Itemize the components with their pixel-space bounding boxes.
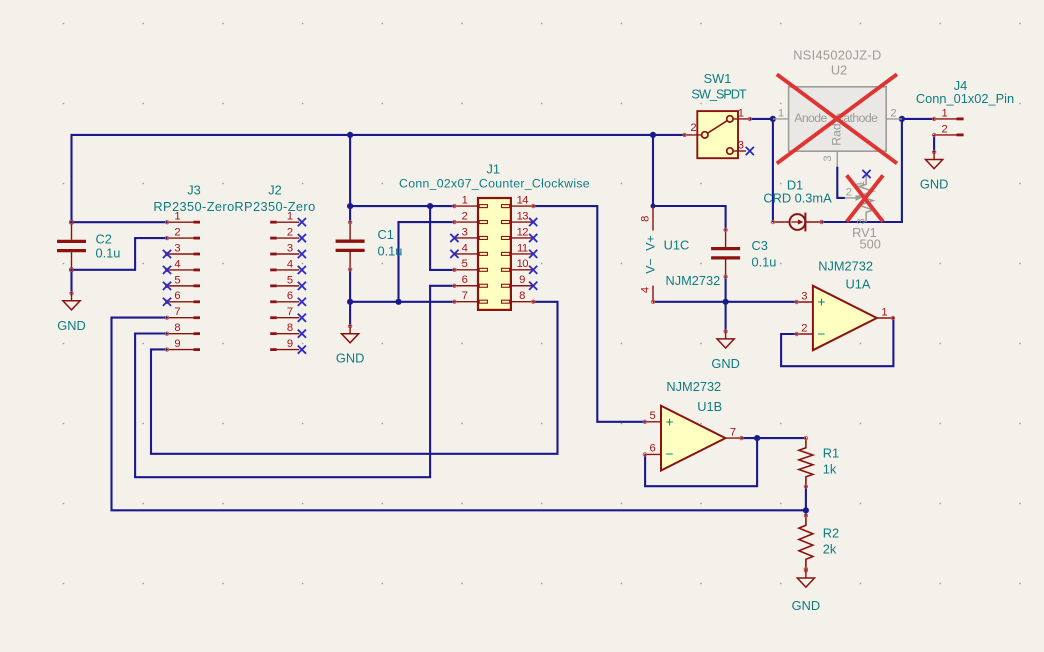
svg-text:3: 3 xyxy=(738,140,744,152)
svg-text:1: 1 xyxy=(287,211,293,223)
svg-text:6: 6 xyxy=(287,290,293,302)
op-amp U1B NJM2732 xyxy=(643,379,743,470)
junction xyxy=(395,299,401,305)
svg-text:3: 3 xyxy=(801,290,807,302)
wire SW1 pin 1 to U2 pin 1 xyxy=(750,118,773,120)
no-connect on J3 pin 6 xyxy=(163,298,171,306)
wire top rail branch down to U1C V+ and C3 xyxy=(653,135,726,230)
svg-text:RP2350-Zero: RP2350-Zero xyxy=(234,199,315,214)
wire U1C V- rail to U1A pin 3 xyxy=(653,301,797,303)
J2 pin 2 xyxy=(270,237,277,240)
svg-text:5: 5 xyxy=(174,274,180,286)
svg-text:9: 9 xyxy=(174,338,180,350)
wire J3 pin 9 loop to J1 pin 8 xyxy=(151,302,558,454)
junction xyxy=(347,299,353,305)
J1 pin 10 xyxy=(511,269,533,271)
regulator U2 NSI45020JZ-D (DNP, crossed out) xyxy=(773,48,902,167)
svg-text:1: 1 xyxy=(738,107,744,119)
J1 pin 11 xyxy=(511,253,533,255)
J1 pin 9 xyxy=(511,285,533,287)
wire VCC top rail from C2 up and across to SW1 pin 2 xyxy=(72,135,685,222)
wire C1 node to J1 pin 1 xyxy=(350,205,454,207)
svg-text:U1A: U1A xyxy=(846,277,871,292)
no-connect on J1 pin 13 xyxy=(529,218,537,226)
J1 pin 12 xyxy=(511,237,533,239)
wire J1 pin 2 to GND rail xyxy=(399,222,455,302)
J3 pin 4 xyxy=(167,269,194,271)
svg-text:1: 1 xyxy=(778,107,784,119)
J1 pin 4 xyxy=(454,253,478,255)
junction xyxy=(651,204,656,209)
potentiometer RV1 500 (DNP, crossed out) xyxy=(845,170,883,252)
svg-text:1: 1 xyxy=(941,107,947,119)
op-amp U1C power unit NJM2732 xyxy=(639,206,720,303)
J1 pin 5 xyxy=(454,269,478,271)
J2 pin 7 xyxy=(270,316,277,319)
wire U2 pin 2 to J4 pin 1 xyxy=(902,118,934,120)
svg-text:2: 2 xyxy=(462,210,468,222)
svg-text:GND: GND xyxy=(711,356,739,371)
svg-text:NJM2732: NJM2732 xyxy=(666,273,721,288)
no-connect on J1 pin 12 xyxy=(529,234,537,242)
svg-text:13: 13 xyxy=(517,210,529,222)
svg-text:6: 6 xyxy=(462,274,468,286)
svg-text:7: 7 xyxy=(287,306,293,318)
wire top rail down to C1 top node xyxy=(349,135,351,206)
svg-text:3: 3 xyxy=(856,218,868,224)
capacitor C1 xyxy=(336,221,403,271)
svg-text:12: 12 xyxy=(517,226,529,238)
J1 pin 14 xyxy=(511,205,533,207)
svg-text:0.1u: 0.1u xyxy=(378,244,403,259)
no-connect on J2 pin 6 xyxy=(298,298,306,306)
svg-text:4: 4 xyxy=(639,287,651,293)
svg-text:1: 1 xyxy=(174,211,180,223)
ground xyxy=(57,292,85,333)
no-connect on J2 pin 2 xyxy=(298,234,306,242)
junction xyxy=(803,507,809,513)
svg-text:1: 1 xyxy=(881,306,887,318)
svg-text:SW1: SW1 xyxy=(704,71,732,86)
J2 pin 8 xyxy=(270,332,277,335)
svg-text:R2: R2 xyxy=(823,525,839,540)
no-connect on J2 pin 5 xyxy=(298,282,306,290)
svg-text:4: 4 xyxy=(287,258,293,270)
svg-text:NSI45020JZ-D: NSI45020JZ-D xyxy=(793,48,881,63)
svg-text:2k: 2k xyxy=(823,541,837,556)
switch SW1 SW_SPDT xyxy=(683,71,754,158)
J3 pin 1 xyxy=(167,221,194,223)
svg-text:8: 8 xyxy=(287,322,293,334)
wire C1 bottom to GND node xyxy=(349,269,351,326)
svg-text:Conn_02x07_Counter_Clockwise: Conn_02x07_Counter_Clockwise xyxy=(399,177,590,191)
wire C1 top pin stub xyxy=(349,206,351,222)
svg-text:+: + xyxy=(666,414,674,429)
svg-text:−: − xyxy=(818,327,826,342)
svg-text:4: 4 xyxy=(174,258,180,270)
junction xyxy=(723,299,729,305)
svg-text:10: 10 xyxy=(517,258,529,270)
svg-text:GND: GND xyxy=(920,177,948,192)
svg-text:8: 8 xyxy=(639,216,651,222)
svg-text:NJM2732: NJM2732 xyxy=(818,258,873,273)
svg-text:3: 3 xyxy=(174,242,180,254)
svg-text:J1: J1 xyxy=(487,162,501,177)
no-connect on J1 pin 11 xyxy=(529,250,537,258)
svg-text:RP2350-Zero: RP2350-Zero xyxy=(153,199,234,214)
capacitor C3 xyxy=(711,228,776,278)
no-connect on J2 pin 9 xyxy=(298,345,306,353)
J2 pin 9 xyxy=(270,348,277,351)
svg-text:+: + xyxy=(818,295,826,310)
junction xyxy=(347,132,353,138)
svg-text:7: 7 xyxy=(462,290,468,302)
svg-text:14: 14 xyxy=(517,195,529,207)
connector J3 RP2350-Zero xyxy=(153,183,234,352)
J1 pin 13 xyxy=(511,221,533,223)
ground xyxy=(336,325,364,366)
wire C2 bottom to GND xyxy=(70,270,72,294)
ground xyxy=(920,150,948,191)
J1 pin 6 xyxy=(454,285,478,287)
no-connect on J2 pin 8 xyxy=(298,330,306,338)
wire J3 pin 7 loop to R1/R2 divider node xyxy=(112,318,806,511)
connector J1 Conn_02x07_Counter_Clockwise xyxy=(399,162,590,310)
svg-text:3: 3 xyxy=(462,226,468,238)
svg-text:V+: V+ xyxy=(644,235,658,250)
no-connect on J3 pin 5 xyxy=(163,282,171,290)
junction xyxy=(770,116,776,122)
ground xyxy=(792,569,820,613)
junction xyxy=(650,132,656,138)
no-connect on RV1 pin 1 xyxy=(862,170,870,178)
svg-text:Anode: Anode xyxy=(794,111,827,125)
no-connect on J3 pin 4 xyxy=(163,266,171,274)
svg-text:GND: GND xyxy=(792,598,820,613)
connector J2 RP2350-Zero xyxy=(234,183,315,354)
svg-text:5: 5 xyxy=(649,410,655,422)
svg-text:U2: U2 xyxy=(831,63,847,78)
svg-text:2: 2 xyxy=(801,322,807,334)
no-connect on J2 pin 4 xyxy=(298,266,306,274)
svg-text:1: 1 xyxy=(462,195,468,207)
no-connect on J3 pin 3 xyxy=(163,250,171,258)
svg-text:500: 500 xyxy=(860,237,881,252)
svg-text:2: 2 xyxy=(287,226,293,238)
no-connect on J2 pin 7 xyxy=(298,314,306,322)
J2 pin 1 xyxy=(270,221,277,224)
wire C2 top to J3 pin 1 xyxy=(72,221,168,223)
capacitor C2 xyxy=(57,221,120,272)
junction xyxy=(754,435,760,441)
svg-text:2: 2 xyxy=(174,226,180,238)
J2 pin 5 xyxy=(270,284,277,287)
svg-text:SW_SPDT: SW_SPDT xyxy=(691,87,746,102)
J3 pin 7 xyxy=(167,317,194,319)
svg-text:7: 7 xyxy=(174,306,180,318)
svg-text:C3: C3 xyxy=(752,238,768,253)
J3 pin 9 xyxy=(167,349,194,351)
svg-text:6: 6 xyxy=(174,290,180,302)
J3 pin 2 xyxy=(167,237,194,239)
wire U2 pin 1 node down to D1 anode xyxy=(772,119,774,222)
J3 pin 8 xyxy=(167,333,194,335)
junction xyxy=(899,116,905,122)
wire C3 bottom to GND xyxy=(725,277,727,332)
junction xyxy=(427,203,433,209)
junction xyxy=(347,203,353,209)
ground xyxy=(711,330,739,371)
svg-text:0.1u: 0.1u xyxy=(96,246,121,261)
wire R1 bottom to divider node to R2 top xyxy=(805,487,807,516)
J3 pin 3 xyxy=(167,253,194,255)
svg-text:−: − xyxy=(666,446,674,461)
no-connect on J1 pin 10 xyxy=(529,266,537,274)
J2 pin 6 xyxy=(270,300,277,303)
no-connect on SW1 pin 3 xyxy=(746,147,754,155)
wire J1 pin 14 to U1B pin 5 xyxy=(533,206,645,422)
svg-text:9: 9 xyxy=(519,274,525,286)
J1 pin 2 xyxy=(454,221,478,223)
svg-text:2: 2 xyxy=(690,122,696,134)
svg-text:8: 8 xyxy=(519,290,525,302)
wire U1A output feedback to pin 2 xyxy=(781,318,893,366)
svg-text:8: 8 xyxy=(174,322,180,334)
svg-text:3: 3 xyxy=(287,242,293,254)
wire R2 bottom to GND xyxy=(805,569,807,571)
svg-text:11: 11 xyxy=(517,242,528,254)
no-connect on J1 pin 9 xyxy=(529,282,537,290)
junction xyxy=(69,267,74,272)
connector J4 Conn_01x02_Pin xyxy=(916,78,1014,137)
wire branch down to J1 pin 5 xyxy=(430,206,454,270)
svg-text:0.1u: 0.1u xyxy=(752,254,777,269)
J2 pin 3 xyxy=(270,253,277,256)
svg-text:V−: V− xyxy=(644,258,658,273)
svg-text:U1B: U1B xyxy=(697,399,722,414)
J1 pin 3 xyxy=(454,237,478,239)
svg-text:GND: GND xyxy=(336,351,364,366)
J1 pin 8 xyxy=(511,301,533,303)
svg-text:U1C: U1C xyxy=(664,238,690,253)
wire J4 node down and left to D1 cathode / RV1 pin 3 xyxy=(822,119,902,222)
svg-text:4: 4 xyxy=(462,242,468,254)
resistor R1 1k xyxy=(799,436,839,488)
J3 pin 5 xyxy=(167,285,194,287)
svg-text:GND: GND xyxy=(57,318,85,333)
wire C2 bottom to J3 pin 2 xyxy=(72,238,168,270)
svg-text:J2: J2 xyxy=(268,183,282,198)
wire GND rail to J1 pin 7 xyxy=(350,301,454,303)
no-connect on J2 pin 1 xyxy=(298,218,306,226)
svg-text:J3: J3 xyxy=(187,183,201,198)
svg-text:C1: C1 xyxy=(378,227,394,242)
svg-text:2: 2 xyxy=(890,107,896,119)
J3 pin 6 xyxy=(167,301,194,303)
no-connect on J1 pin 3 xyxy=(450,234,458,242)
svg-text:Rad: Rad xyxy=(830,123,844,145)
svg-text:6: 6 xyxy=(649,443,655,455)
svg-text:3: 3 xyxy=(822,155,834,161)
svg-text:2: 2 xyxy=(941,123,947,135)
no-connect on J2 pin 3 xyxy=(298,250,306,258)
junction xyxy=(69,220,74,225)
wire U1B output feedback to pin 6 xyxy=(645,438,757,486)
J1 pin 1 xyxy=(454,205,478,207)
svg-text:Conn_01x02_Pin: Conn_01x02_Pin xyxy=(916,91,1014,106)
J2 pin 4 xyxy=(270,269,277,272)
svg-text:7: 7 xyxy=(730,426,736,438)
wire U1B output to R1 top xyxy=(742,437,806,439)
diode D1 CRD 0.3mA xyxy=(763,178,832,232)
svg-text:9: 9 xyxy=(287,338,293,350)
svg-text:C2: C2 xyxy=(96,232,112,247)
svg-text:5: 5 xyxy=(462,258,468,270)
wire U2 pin 3 to RV1 wiper xyxy=(837,167,845,198)
svg-text:1k: 1k xyxy=(823,461,837,476)
wire J3 pin 8 loop to J1 pin 6 xyxy=(135,286,454,477)
wire J4 pin 2 to GND xyxy=(933,135,935,152)
svg-text:NJM2732: NJM2732 xyxy=(666,379,721,394)
svg-text:2: 2 xyxy=(846,186,852,198)
svg-text:5: 5 xyxy=(287,274,293,286)
J1 pin 7 xyxy=(454,301,478,303)
op-amp U1A NJM2732 xyxy=(795,258,895,350)
resistor R2 2k xyxy=(799,514,839,571)
svg-text:CRD 0.3mA: CRD 0.3mA xyxy=(763,191,832,206)
svg-text:R1: R1 xyxy=(823,445,839,460)
no-connect on J1 pin 4 xyxy=(450,250,458,258)
